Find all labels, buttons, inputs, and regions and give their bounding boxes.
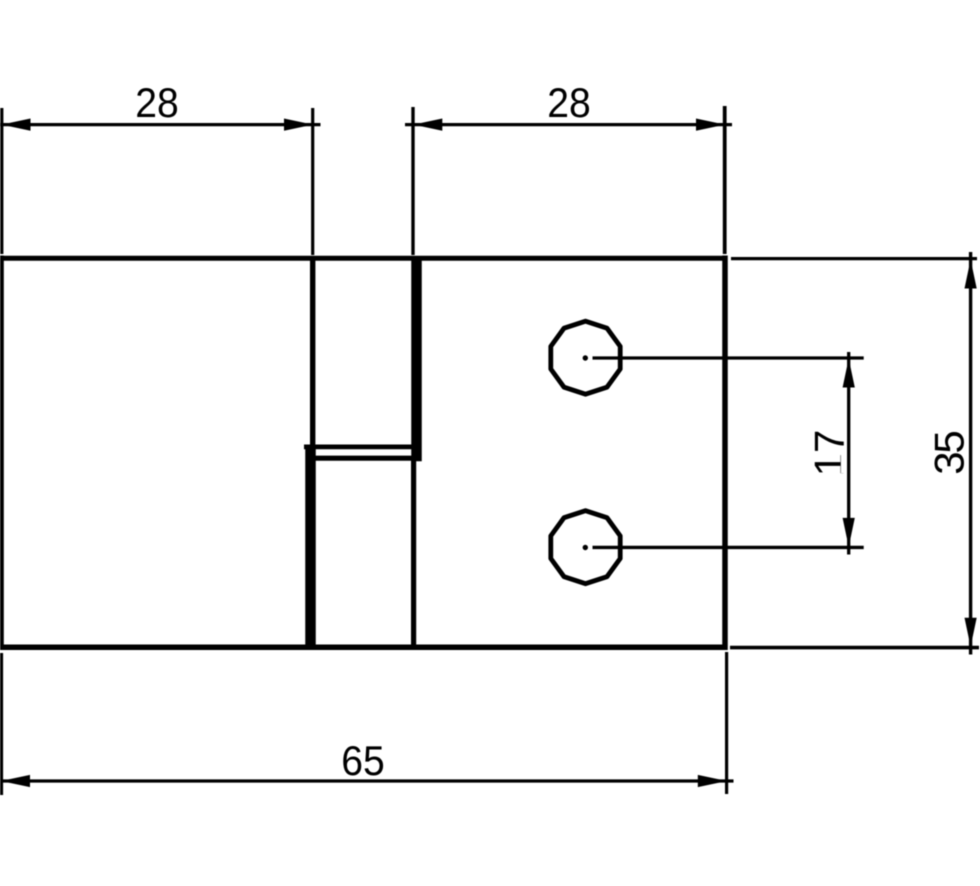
svg-text:28: 28 bbox=[135, 79, 179, 126]
patch: remove foot serif of rotated digit 1 bbox=[841, 454, 847, 474]
extension line right 28 right bbox=[723, 106, 727, 254]
middle joint upper horizontal edge bbox=[304, 444, 417, 449]
extension line 65 left bbox=[0, 653, 3, 795]
svg-text:65: 65 bbox=[341, 737, 385, 784]
arrowhead 28 right east bbox=[696, 119, 725, 131]
arrowhead 28 left west bbox=[2, 119, 31, 131]
part outline right edge bbox=[722, 256, 728, 651]
extension line 65 right bbox=[725, 652, 728, 794]
svg-text:28: 28 bbox=[547, 79, 591, 126]
dimension line 28 right bbox=[405, 123, 732, 126]
extension line right 28 left bbox=[411, 107, 414, 255]
extension line 17 from hole H1 center bbox=[593, 356, 864, 359]
arrowhead 17 south bbox=[843, 518, 855, 547]
hole H2 center dot bbox=[583, 545, 588, 550]
arrowhead 28 left east bbox=[284, 119, 313, 131]
extension line 35 bottom bbox=[730, 646, 979, 650]
middle joint lower horizontal edge bbox=[306, 456, 420, 461]
arrowhead 35 north bbox=[965, 260, 977, 289]
part outline left edge bbox=[0, 256, 4, 651]
middle joint lower-left vertical edge (thick) bbox=[305, 448, 316, 649]
dimension line 35 bbox=[969, 252, 972, 655]
arrowhead 65 west bbox=[1, 775, 30, 787]
arrowhead 35 south bbox=[965, 618, 977, 647]
arrowhead 28 right west bbox=[413, 119, 442, 131]
arrowhead 65 east bbox=[698, 775, 727, 787]
dimension line 17 bbox=[847, 352, 850, 555]
hole H1 circle (upper, polygon rendering) bbox=[551, 321, 620, 394]
hole H1 center dot bbox=[583, 355, 588, 360]
middle joint lower-right vertical edge bbox=[411, 457, 416, 649]
dimension line 65 bbox=[0, 779, 734, 782]
arrowhead 17 north bbox=[843, 359, 855, 388]
extension line 17 from hole H2 center bbox=[593, 546, 864, 549]
middle joint upper-left vertical edge bbox=[310, 257, 315, 449]
part outline top edge bbox=[0, 256, 728, 261]
extension line left 28 left bbox=[0, 108, 3, 254]
extension line left 28 right bbox=[311, 108, 314, 255]
part outline bottom edge bbox=[0, 645, 728, 651]
extension line 35 top bbox=[731, 257, 977, 260]
dimension line 28 left bbox=[0, 123, 321, 126]
svg-text:35: 35 bbox=[926, 430, 973, 475]
middle joint upper-right vertical edge (thick) bbox=[411, 257, 422, 461]
hole H2 circle (lower, polygon rendering) bbox=[551, 511, 620, 584]
